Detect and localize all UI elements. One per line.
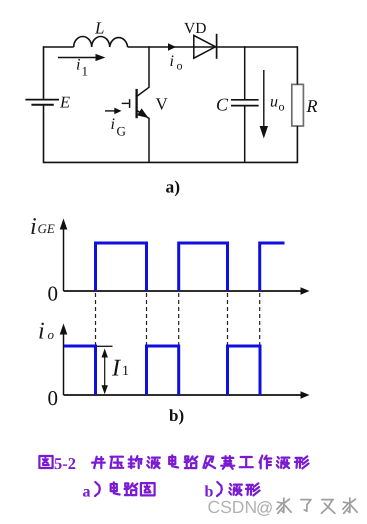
svg-text:5-2: 5-2 bbox=[54, 454, 76, 473]
caption line1 chinese bbox=[92, 457, 105, 468]
svg-text:a): a) bbox=[166, 177, 181, 197]
wire left vertical with battery gap bbox=[43, 46, 45, 99]
capacitor branch lower bbox=[244, 106, 246, 163]
svg-text:@: @ bbox=[256, 499, 273, 518]
io waveform pulses bbox=[64, 346, 260, 395]
svg-text:VD: VD bbox=[184, 20, 206, 37]
wire top-left horizontal bbox=[44, 46, 74, 48]
capacitor branch upper bbox=[244, 46, 246, 99]
io plot y-axis bbox=[63, 332, 65, 395]
IGBT gate lead bbox=[122, 102, 129, 104]
iGE plot x-axis bbox=[64, 290, 303, 292]
output voltage arrow uo bbox=[263, 70, 265, 127]
svg-text:i: i bbox=[38, 319, 45, 345]
dashed timing lines bbox=[95, 293, 97, 346]
IGBT emitter wire down bbox=[148, 118, 150, 163]
resistor wires bbox=[296, 46, 298, 163]
svg-text:u: u bbox=[270, 94, 278, 111]
svg-text:GE: GE bbox=[38, 221, 55, 236]
svg-text:R: R bbox=[306, 96, 318, 116]
current arrow io bbox=[168, 43, 176, 51]
IGBT body bar bbox=[135, 89, 137, 118]
svg-text:i: i bbox=[76, 56, 80, 73]
IGBT gate bar bbox=[129, 99, 131, 108]
svg-text:o: o bbox=[279, 100, 285, 114]
iGE waveform pulses bbox=[96, 243, 285, 291]
caption line1 char tu bbox=[39, 456, 52, 468]
svg-text:i: i bbox=[170, 53, 174, 70]
svg-text:i: i bbox=[111, 116, 115, 133]
diode VD triangle bbox=[194, 35, 216, 58]
I1 measure arrow bbox=[104, 352, 106, 389]
I1 reference tick bbox=[97, 345, 113, 347]
svg-text:E: E bbox=[59, 93, 70, 112]
svg-text:V: V bbox=[156, 94, 169, 113]
svg-text:o: o bbox=[48, 327, 55, 342]
inductor L coil bbox=[74, 37, 128, 48]
svg-text:b): b) bbox=[169, 406, 184, 425]
svg-text:a: a bbox=[83, 484, 91, 501]
svg-text:1: 1 bbox=[82, 63, 89, 78]
capacitor plates C bbox=[231, 99, 259, 101]
svg-text:0: 0 bbox=[48, 282, 59, 306]
svg-text:0: 0 bbox=[48, 386, 59, 410]
wire top middle bbox=[128, 46, 298, 48]
svg-text:G: G bbox=[117, 123, 126, 138]
svg-text:1: 1 bbox=[122, 364, 129, 379]
svg-text:o: o bbox=[177, 59, 183, 73]
svg-text:I: I bbox=[111, 355, 121, 381]
resistor R box bbox=[292, 84, 304, 126]
current arrow i1 bbox=[58, 57, 96, 59]
svg-text:i: i bbox=[30, 214, 37, 240]
gate current arrow iG bbox=[105, 110, 115, 112]
io plot x-axis bbox=[64, 394, 303, 396]
IGBT collector wire bbox=[137, 46, 149, 96]
wire bottom horizontal bbox=[44, 161, 298, 163]
diode VD cathode bar bbox=[216, 34, 218, 59]
battery E long plate bbox=[25, 99, 59, 101]
IGBT emitter with arrow bbox=[137, 110, 149, 118]
watermark name bbox=[277, 498, 291, 513]
iGE plot y-axis bbox=[63, 227, 65, 291]
svg-text:CSDN: CSDN bbox=[208, 497, 258, 517]
svg-text:C: C bbox=[216, 95, 229, 115]
svg-text:L: L bbox=[94, 19, 104, 38]
battery E short plate bbox=[31, 104, 53, 106]
